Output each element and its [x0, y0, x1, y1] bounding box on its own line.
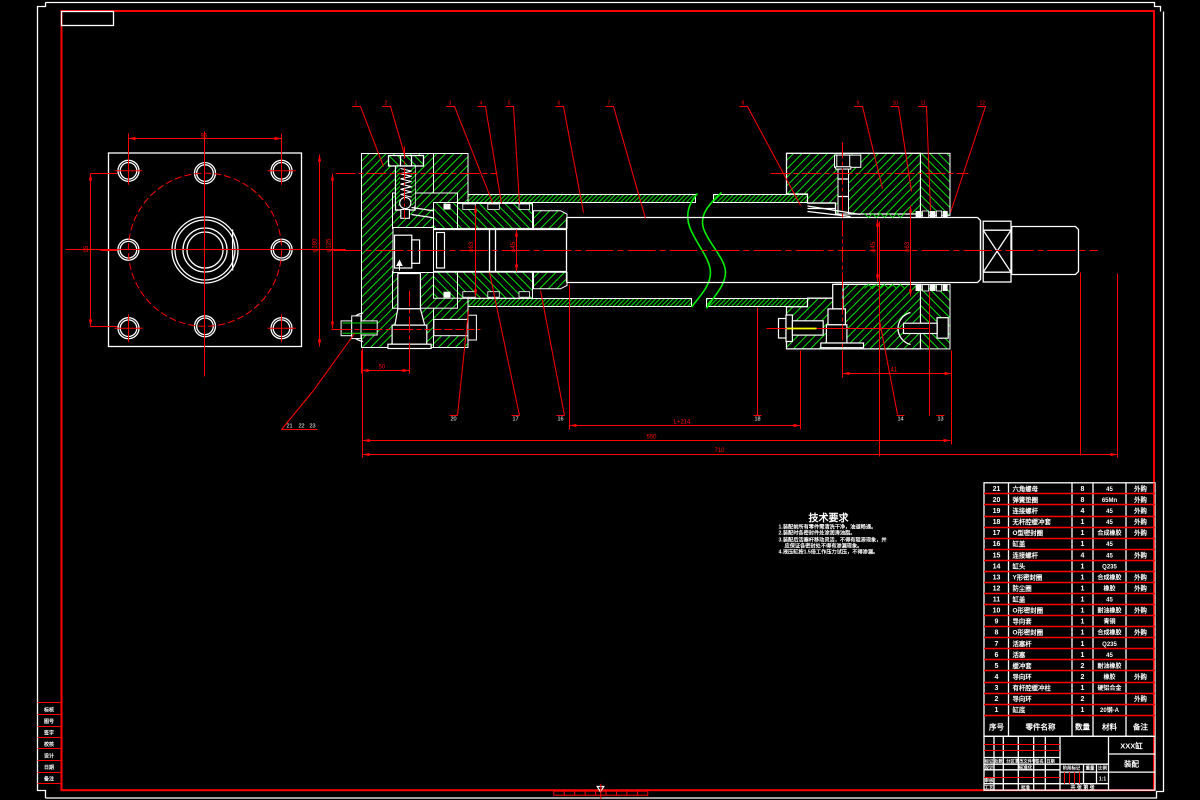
- svg-text:合成橡胶: 合成橡胶: [1097, 529, 1121, 537]
- svg-text:20钢-A: 20钢-A: [1100, 706, 1120, 714]
- svg-text:9: 9: [995, 619, 999, 626]
- svg-text:外购: 外购: [1134, 606, 1147, 615]
- svg-text:签名: 签名: [1034, 758, 1043, 765]
- svg-text:6: 6: [558, 101, 561, 107]
- svg-text:日期: 日期: [44, 764, 54, 771]
- svg-text:备注: 备注: [43, 776, 54, 783]
- svg-text:φ63: φ63: [469, 241, 475, 252]
- svg-text:8: 8: [742, 101, 745, 107]
- svg-text:1.装配前所有零件需清洗干净，油道畅通。: 1.装配前所有零件需清洗干净，油道畅通。: [779, 523, 877, 531]
- svg-text:1: 1: [1081, 519, 1085, 526]
- svg-text:缸头: 缸头: [1013, 561, 1026, 570]
- svg-text:1: 1: [995, 707, 999, 714]
- svg-text:O型密封圈: O型密封圈: [1013, 528, 1044, 537]
- svg-text:2: 2: [385, 101, 388, 107]
- svg-text:外购: 外购: [1134, 694, 1147, 703]
- svg-text:φ45: φ45: [871, 241, 877, 252]
- svg-text:3: 3: [995, 685, 999, 692]
- svg-text:导向环: 导向环: [1013, 694, 1033, 703]
- svg-text:1: 1: [355, 101, 358, 107]
- svg-text:3.装配后活塞杆移动灵活，不得有阻滞现象，并: 3.装配后活塞杆移动灵活，不得有阻滞现象，并: [779, 536, 888, 544]
- svg-text:1: 1: [1081, 597, 1085, 604]
- svg-text:19: 19: [993, 508, 1001, 515]
- svg-text:13: 13: [938, 417, 944, 423]
- svg-text:17: 17: [993, 530, 1001, 537]
- svg-text:65Mn: 65Mn: [1102, 498, 1118, 504]
- svg-text:23: 23: [310, 424, 316, 430]
- svg-text:45: 45: [1106, 553, 1113, 559]
- svg-text:16: 16: [993, 541, 1001, 548]
- svg-text:45: 45: [1106, 509, 1113, 515]
- svg-text:标核: 标核: [43, 707, 54, 714]
- svg-text:耐油橡胶: 耐油橡胶: [1097, 607, 1121, 615]
- svg-text:青铜: 青铜: [1103, 618, 1115, 626]
- svg-text:10: 10: [993, 608, 1001, 615]
- svg-text:校核: 校核: [44, 741, 54, 748]
- svg-text:阶段标记: 阶段标记: [1063, 764, 1081, 771]
- svg-text:45: 45: [1106, 520, 1113, 526]
- svg-text:5: 5: [995, 663, 999, 670]
- svg-text:14: 14: [898, 417, 904, 423]
- svg-text:工艺: 工艺: [985, 784, 994, 791]
- svg-text:1: 1: [1081, 619, 1085, 626]
- svg-text:外购: 外购: [1134, 672, 1147, 681]
- svg-text:连接螺杆: 连接螺杆: [1013, 506, 1039, 515]
- svg-text:5: 5: [508, 101, 511, 107]
- svg-text:外购: 外购: [1134, 628, 1147, 637]
- svg-text:45: 45: [1106, 598, 1113, 604]
- svg-text:11: 11: [993, 597, 1001, 604]
- svg-text:设计: 设计: [985, 764, 994, 771]
- svg-text:21: 21: [993, 486, 1001, 493]
- svg-text:材料: 材料: [1102, 721, 1118, 731]
- svg-text:标准化: 标准化: [1018, 764, 1033, 771]
- svg-text:六角螺母: 六角螺母: [1013, 484, 1039, 493]
- svg-text:1: 1: [1081, 541, 1085, 548]
- svg-text:18: 18: [993, 519, 1001, 526]
- svg-text:Q235: Q235: [1102, 642, 1117, 648]
- svg-text:1: 1: [1081, 574, 1085, 581]
- svg-text:1: 1: [1081, 608, 1085, 615]
- svg-text:审核: 审核: [985, 777, 994, 784]
- svg-text:1: 1: [1081, 563, 1085, 570]
- svg-text:12: 12: [993, 586, 1001, 593]
- svg-text:95: 95: [201, 134, 208, 140]
- svg-text:缸盖: 缸盖: [1013, 539, 1026, 548]
- svg-text:零件名称: 零件名称: [1025, 721, 1056, 731]
- svg-text:图号: 图号: [44, 718, 54, 725]
- svg-text:橡胶: 橡胶: [1103, 585, 1115, 593]
- svg-text:硬铝合金: 硬铝合金: [1097, 684, 1122, 692]
- svg-text:无杆腔缓冲套: 无杆腔缓冲套: [1012, 517, 1052, 526]
- svg-text:710: 710: [715, 448, 726, 454]
- svg-text:41: 41: [891, 368, 898, 374]
- svg-text:1: 1: [1081, 630, 1085, 637]
- svg-text:7: 7: [995, 641, 999, 648]
- svg-text:12: 12: [980, 101, 986, 107]
- svg-text:有杆腔缓冲柱: 有杆腔缓冲柱: [1013, 683, 1052, 692]
- svg-text:橡胶: 橡胶: [1103, 673, 1115, 681]
- svg-text:8: 8: [1081, 497, 1085, 504]
- svg-text:18: 18: [755, 417, 761, 423]
- svg-text:1: 1: [1081, 586, 1085, 593]
- svg-text:外购: 外购: [1134, 484, 1147, 493]
- svg-text:批准: 批准: [1021, 784, 1030, 791]
- svg-text:13: 13: [993, 574, 1001, 581]
- svg-text:更改文件号: 更改文件号: [1015, 758, 1036, 765]
- svg-text:10: 10: [893, 101, 899, 107]
- svg-text:1: 1: [1081, 530, 1085, 537]
- svg-text:1: 1: [1081, 652, 1085, 659]
- svg-text:1:1: 1:1: [1099, 777, 1106, 783]
- svg-text:22: 22: [299, 424, 305, 430]
- svg-text:合成橡胶: 合成橡胶: [1097, 573, 1121, 581]
- svg-text:8: 8: [1081, 486, 1085, 493]
- svg-text:L+214: L+214: [674, 420, 692, 426]
- svg-text:7: 7: [608, 101, 611, 107]
- svg-text:处数: 处数: [993, 758, 1003, 765]
- svg-text:14: 14: [993, 563, 1001, 570]
- svg-text:2: 2: [1081, 674, 1085, 681]
- svg-text:导向套: 导向套: [1013, 617, 1033, 626]
- svg-text:45: 45: [1106, 542, 1113, 548]
- svg-text:比例: 比例: [1098, 764, 1107, 771]
- svg-text:4: 4: [1081, 508, 1085, 515]
- svg-text:Y形密封圈: Y形密封圈: [1013, 572, 1043, 581]
- svg-text:应保证各密封处不得有渗漏现象。: 应保证各密封处不得有渗漏现象。: [785, 542, 863, 550]
- svg-text:45: 45: [1106, 487, 1113, 493]
- svg-text:45: 45: [1106, 653, 1113, 659]
- svg-text:φ180: φ180: [313, 238, 319, 253]
- svg-text:2.装配时各密封件处涂润滑油脂。: 2.装配时各密封件处涂润滑油脂。: [779, 529, 856, 537]
- svg-text:4: 4: [995, 674, 999, 681]
- svg-text:11: 11: [921, 101, 926, 107]
- svg-text:重量: 重量: [1086, 764, 1095, 771]
- svg-text:550: 550: [647, 435, 658, 441]
- svg-text:O形密封圈: O形密封圈: [1013, 628, 1044, 637]
- svg-text:9: 9: [857, 101, 860, 107]
- svg-text:弹簧垫圈: 弹簧垫圈: [1013, 495, 1039, 504]
- svg-text:8: 8: [995, 630, 999, 637]
- svg-text:20: 20: [451, 417, 457, 423]
- svg-text:日期: 日期: [1046, 758, 1054, 765]
- svg-text:Q235: Q235: [1102, 564, 1117, 570]
- svg-text:外购: 外购: [1134, 528, 1147, 537]
- svg-text:共 张 第 张: 共 张 第 张: [1071, 784, 1096, 791]
- svg-text:外购: 外购: [1134, 517, 1147, 526]
- svg-text:4: 4: [1081, 552, 1085, 559]
- svg-text:1: 1: [1081, 641, 1085, 648]
- svg-text:签字: 签字: [43, 730, 54, 737]
- svg-text:外购: 外购: [1134, 584, 1147, 593]
- svg-text:17: 17: [513, 417, 519, 423]
- svg-text:序号: 序号: [989, 721, 1004, 731]
- svg-text:外购: 外购: [1134, 572, 1147, 581]
- svg-text:缸盖: 缸盖: [1013, 595, 1026, 604]
- svg-text:3: 3: [449, 101, 452, 107]
- svg-text:16: 16: [558, 417, 564, 423]
- svg-text:20: 20: [993, 497, 1001, 504]
- svg-text:活塞: 活塞: [1013, 650, 1026, 659]
- svg-text:装配: 装配: [1123, 759, 1140, 769]
- svg-text:O形密封圈: O形密封圈: [1013, 606, 1044, 615]
- svg-text:合成橡胶: 合成橡胶: [1097, 629, 1121, 637]
- svg-text:1: 1: [1081, 707, 1085, 714]
- svg-text:外购: 外购: [1134, 495, 1147, 504]
- svg-text:φ63: φ63: [905, 241, 911, 252]
- svg-text:外购: 外购: [1134, 506, 1147, 515]
- svg-text:XXX缸: XXX缸: [1120, 741, 1143, 751]
- svg-text:标记: 标记: [984, 758, 994, 765]
- svg-text:6: 6: [995, 652, 999, 659]
- svg-text:防尘圈: 防尘圈: [1013, 584, 1033, 593]
- svg-text:4: 4: [480, 101, 483, 107]
- svg-text:活塞杆: 活塞杆: [1013, 639, 1033, 648]
- svg-text:15: 15: [993, 552, 1001, 559]
- svg-text:2: 2: [1081, 663, 1085, 670]
- svg-text:耐油橡胶: 耐油橡胶: [1097, 662, 1121, 670]
- svg-text:数量: 数量: [1075, 721, 1091, 731]
- svg-text:21: 21: [287, 424, 293, 430]
- svg-text:缓冲套: 缓冲套: [1013, 661, 1033, 670]
- svg-text:φ125: φ125: [327, 238, 333, 253]
- svg-text:缸底: 缸底: [1013, 705, 1026, 714]
- svg-text:连接螺杆: 连接螺杆: [1013, 550, 1039, 559]
- svg-text:50: 50: [379, 365, 386, 371]
- svg-text:设计: 设计: [44, 753, 54, 760]
- svg-text:φ45: φ45: [511, 241, 517, 252]
- svg-text:技术要求: 技术要求: [809, 512, 850, 525]
- svg-text:导向环: 导向环: [1013, 672, 1033, 681]
- svg-text:2: 2: [1081, 696, 1085, 703]
- svg-text:备注: 备注: [1132, 721, 1149, 731]
- svg-text:外购: 外购: [1134, 550, 1147, 559]
- svg-text:2: 2: [995, 696, 999, 703]
- svg-text:95: 95: [84, 245, 90, 252]
- svg-text:1: 1: [1081, 685, 1085, 692]
- svg-text:4.液压缸按1.5倍工作压力试压，不得渗漏。: 4.液压缸按1.5倍工作压力试压，不得渗漏。: [779, 548, 879, 556]
